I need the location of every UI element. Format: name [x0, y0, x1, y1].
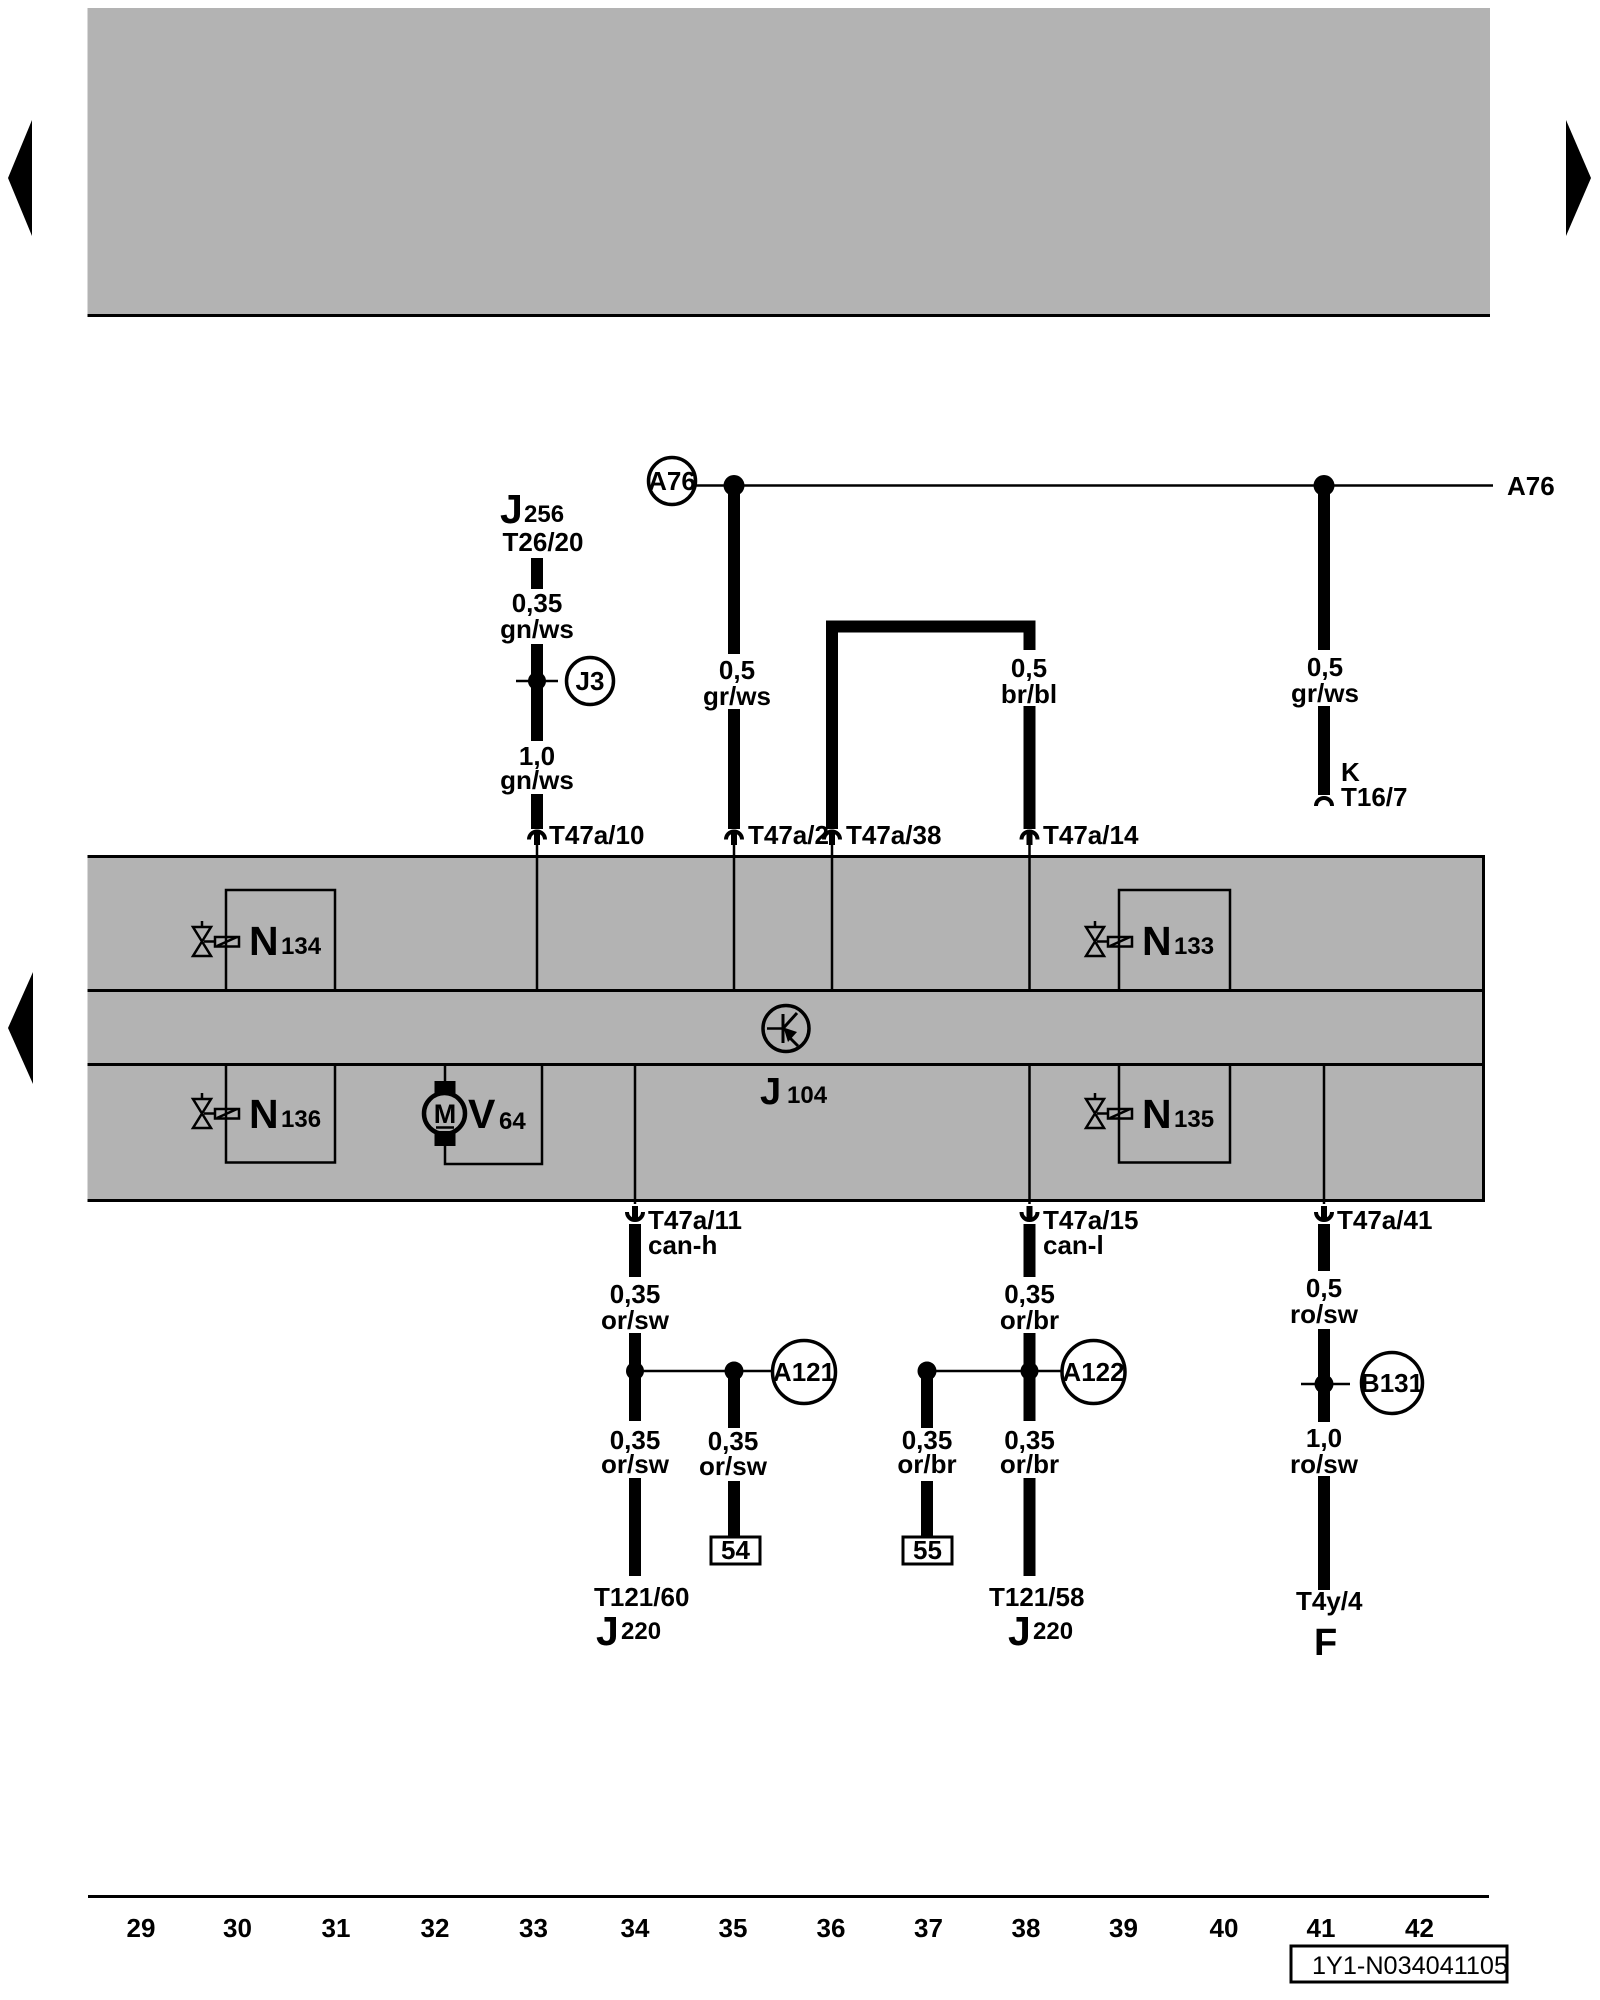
diagram code box: [1291, 1946, 1508, 1982]
wire A76 horizontal net: [695, 484, 1493, 487]
branch wire to terminal 54: [728, 1377, 740, 1428]
svg-text:55: 55: [913, 1535, 942, 1565]
branch wire to terminal 55: [921, 1377, 933, 1428]
svg-text:J: J: [760, 1071, 781, 1113]
wire A76 to K T16/7: [1318, 488, 1330, 650]
wire A122 tick: [927, 1370, 1062, 1373]
pin T47a/41: [1321, 1206, 1327, 1221]
svg-text:N: N: [249, 1091, 279, 1137]
svg-text:33: 33: [519, 1913, 548, 1943]
svg-text:can-h: can-h: [648, 1230, 717, 1260]
pin lead T47a/38 into J104: [831, 845, 834, 990]
svg-text:gr/ws: gr/ws: [703, 681, 771, 711]
svg-text:T26/20: T26/20: [503, 527, 584, 557]
wire segment to T47a/10: [531, 794, 543, 829]
svg-text:54: 54: [721, 1535, 750, 1565]
svg-text:220: 220: [621, 1618, 661, 1645]
svg-text:T47a/14: T47a/14: [1043, 820, 1139, 850]
node B131 circle: [1361, 1353, 1423, 1414]
svg-text:N: N: [249, 918, 279, 964]
internal lead from T47a/2: [733, 855, 736, 990]
svg-text:T16/7: T16/7: [1341, 782, 1408, 812]
pin lead T47a/2 into J104: [733, 845, 736, 990]
svg-text:T47a/10: T47a/10: [549, 820, 644, 850]
svg-text:34: 34: [621, 1913, 650, 1943]
svg-text:or/sw: or/sw: [601, 1449, 670, 1479]
motor V64 circle: [424, 1093, 465, 1134]
wire A121 tick: [635, 1370, 773, 1373]
connector J256 label: [500, 486, 583, 557]
svg-text:220: 220: [1033, 1618, 1073, 1645]
connector cup T47a/14: [1022, 832, 1038, 840]
svg-text:37: 37: [914, 1913, 943, 1943]
node A122 circle: [1062, 1341, 1125, 1404]
junction on A76 at K wire: [1314, 475, 1335, 496]
svg-text:136: 136: [281, 1106, 321, 1133]
svg-text:256: 256: [524, 501, 564, 528]
wire T47a/11 segment 1: [629, 1224, 641, 1277]
junction A121 on main wire: [626, 1362, 644, 1380]
junction A122 branch: [918, 1362, 937, 1381]
branch wire segment 2: [728, 1481, 740, 1537]
motor V64 frame: [445, 1065, 542, 1165]
svg-text:135: 135: [1174, 1106, 1214, 1133]
svg-text:A76: A76: [648, 466, 696, 496]
svg-text:104: 104: [787, 1082, 828, 1109]
svg-text:J: J: [500, 486, 523, 532]
pin lead T47a/11 out of J104: [634, 1065, 637, 1204]
wire T47a/41 segment 1: [1318, 1224, 1330, 1271]
svg-text:gn/ws: gn/ws: [500, 765, 574, 795]
svg-text:39: 39: [1109, 1913, 1138, 1943]
svg-text:F: F: [1314, 1622, 1337, 1664]
svg-text:ro/sw: ro/sw: [1290, 1299, 1359, 1329]
internal lead from T47a/10: [536, 855, 539, 990]
pin T47a/2: [731, 831, 737, 845]
wire T47a/15 segment 3: [1024, 1478, 1036, 1576]
connector cup T47a/15: [1022, 1212, 1038, 1220]
svg-text:J: J: [596, 1608, 619, 1654]
wire T47a/41 segment 3: [1318, 1476, 1330, 1590]
svg-text:36: 36: [817, 1913, 846, 1943]
svg-text:29: 29: [127, 1913, 156, 1943]
wire J256 T26/20 upper segment: [531, 558, 543, 589]
valve N133 symbol: [1086, 921, 1132, 956]
svg-text:40: 40: [1210, 1913, 1239, 1943]
terminal 55 box: [903, 1535, 952, 1565]
svg-text:38: 38: [1012, 1913, 1041, 1943]
pin lead T47a/41 out of J104: [1323, 1065, 1326, 1204]
svg-text:M: M: [434, 1099, 457, 1129]
svg-text:42: 42: [1405, 1913, 1434, 1943]
header gray panel: [88, 8, 1491, 314]
page-nav arrow left top: [8, 120, 32, 236]
svg-text:or/sw: or/sw: [699, 1451, 768, 1481]
pin T47a/14: [1027, 831, 1033, 845]
valve N135 box: [1119, 1065, 1230, 1163]
svg-text:J: J: [1008, 1608, 1031, 1654]
pin lead T47a/14 into J104: [1028, 845, 1031, 990]
lamp symbol K in J104: [763, 1006, 809, 1052]
splice J3 dot: [528, 672, 546, 690]
pin T47a/10: [534, 831, 540, 845]
svg-text:T121/58: T121/58: [989, 1582, 1084, 1612]
svg-text:ro/sw: ro/sw: [1290, 1449, 1359, 1479]
splice B131 tick: [1301, 1383, 1350, 1386]
svg-text:T47a/2: T47a/2: [748, 820, 829, 850]
current track scale line: [88, 1895, 1489, 1898]
valve N134 symbol: [193, 921, 239, 956]
svg-text:32: 32: [421, 1913, 450, 1943]
motor V64 terminal upper: [435, 1081, 456, 1096]
connector cup T47a/10: [529, 832, 545, 840]
connector cup K T16/7: [1316, 798, 1332, 806]
svg-text:V: V: [468, 1091, 496, 1137]
pin T47a/38: [829, 831, 835, 845]
svg-text:A121: A121: [773, 1357, 835, 1387]
branch wire segment 2: [921, 1481, 933, 1537]
svg-text:or/br: or/br: [1000, 1449, 1059, 1479]
svg-text:N: N: [1142, 1091, 1172, 1137]
splice B131 dot: [1315, 1375, 1334, 1394]
svg-text:gn/ws: gn/ws: [500, 614, 574, 644]
pin lead T47a/10 into J104: [536, 845, 539, 990]
svg-text:or/sw: or/sw: [601, 1305, 670, 1335]
J104 top border: [88, 855, 1486, 858]
wire T47a/15 segment 2: [1024, 1333, 1036, 1421]
motor V64 terminal lower: [435, 1131, 456, 1146]
header panel bottom border: [88, 314, 1491, 317]
wire T47a/11 segment 3: [629, 1478, 641, 1576]
pin T47a/15: [1027, 1206, 1033, 1221]
junction A122 on main wire: [1021, 1362, 1039, 1380]
valve N134 box: [226, 890, 335, 991]
J104 bottom border: [88, 1199, 1486, 1202]
valve N133 box: [1119, 890, 1230, 991]
connector cup T47a/38: [824, 832, 840, 840]
J104 right border: [1482, 857, 1485, 1201]
svg-text:A122: A122: [1062, 1357, 1124, 1387]
svg-text:T4y/4: T4y/4: [1296, 1586, 1363, 1616]
terminal 54 box: [711, 1535, 760, 1565]
node A121 circle: [773, 1341, 836, 1404]
junction on A76 at T47a/2 wire: [724, 475, 745, 496]
svg-text:41: 41: [1307, 1913, 1336, 1943]
svg-text:31: 31: [322, 1913, 351, 1943]
svg-text:1Y1-N034041105: 1Y1-N034041105: [1312, 1952, 1508, 1980]
svg-text:133: 133: [1174, 933, 1214, 960]
valve N136 symbol: [193, 1093, 239, 1128]
svg-text:30: 30: [223, 1913, 252, 1943]
svg-text:N: N: [1142, 918, 1172, 964]
svg-text:B131: B131: [1361, 1368, 1423, 1398]
svg-text:A76: A76: [1507, 471, 1555, 501]
svg-text:or/br: or/br: [897, 1449, 956, 1479]
internal lead from T47a/38: [831, 855, 834, 990]
splice J3 tick: [516, 680, 558, 683]
wire segment to T47a/14: [1024, 706, 1036, 829]
svg-text:134: 134: [281, 933, 322, 960]
svg-text:can-l: can-l: [1043, 1230, 1104, 1260]
node J3 circle: [567, 658, 614, 705]
wire T47a/11 segment 2: [629, 1333, 641, 1421]
svg-text:J3: J3: [576, 666, 605, 696]
wire segment to K: [1318, 706, 1330, 795]
pin lead T47a/15 out of J104: [1028, 1065, 1031, 1204]
svg-text:T47a/38: T47a/38: [846, 820, 941, 850]
svg-text:T47a/41: T47a/41: [1337, 1205, 1432, 1235]
svg-text:35: 35: [719, 1913, 748, 1943]
connector cup T47a/41: [1316, 1212, 1332, 1220]
page-nav arrow left middle: [8, 972, 33, 1084]
connector cup T47a/11: [627, 1212, 643, 1220]
page-nav arrow right top: [1566, 120, 1591, 236]
J104 internal divider upper: [88, 989, 1486, 992]
track numbers: [127, 1913, 1434, 1943]
valve N136 box: [226, 1065, 335, 1163]
junction A121 branch: [725, 1362, 744, 1381]
J104 internal divider lower: [88, 1063, 1486, 1066]
svg-text:gr/ws: gr/ws: [1291, 678, 1359, 708]
motor V64 lead upper: [444, 1065, 447, 1082]
wire segment to J3: [531, 644, 543, 741]
connector cup T47a/2: [726, 832, 742, 840]
wire segment to T47a/2: [728, 709, 740, 829]
svg-text:or/br: or/br: [1000, 1305, 1059, 1335]
control unit J104 body: [88, 857, 1486, 1201]
wire bridge T47a/38 to T47a/14: [832, 627, 1030, 830]
wire T47a/15 segment 1: [1024, 1224, 1036, 1277]
wire T47a/41 segment 2: [1318, 1329, 1330, 1422]
node A76 circle: [648, 458, 696, 505]
svg-text:64: 64: [499, 1108, 526, 1135]
svg-text:br/bl: br/bl: [1001, 679, 1057, 709]
pin T47a/11: [632, 1206, 638, 1221]
valve N135 symbol: [1086, 1093, 1132, 1128]
internal lead from T47a/14: [1028, 855, 1031, 990]
wire A76 to T47a/2 upper segment: [728, 488, 740, 654]
